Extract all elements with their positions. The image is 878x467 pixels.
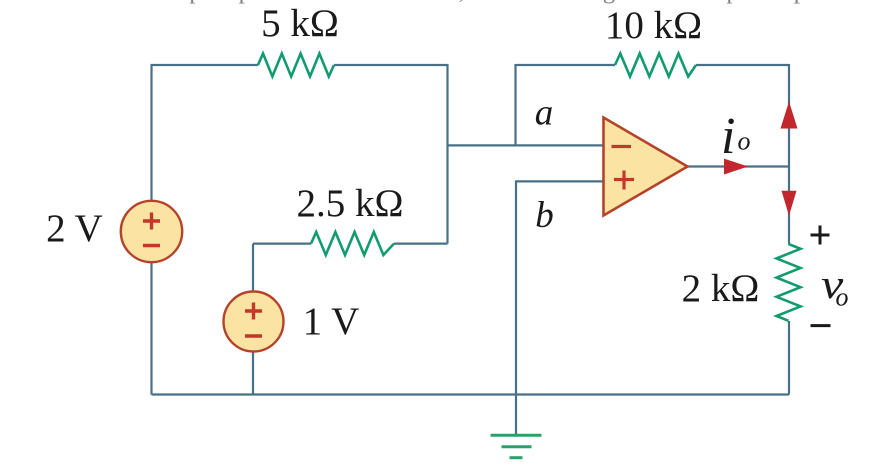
cropped caption text at very top bbox=[140, 0, 852, 4]
resistor R=10k zigzag bbox=[615, 54, 696, 77]
svg-text:the op amp circuit shown below: the op amp circuit shown below, calculat… bbox=[140, 0, 852, 4]
svg-text:2.5 kΩ: 2.5 kΩ bbox=[297, 182, 404, 225]
wire bottom horizontal bbox=[152, 393, 790, 395]
plus sign for v_o bbox=[811, 226, 830, 245]
svg-text:5 kΩ: 5 kΩ bbox=[261, 2, 339, 45]
wire right vertical upper bbox=[788, 64, 790, 244]
svg-text:10 kΩ: 10 kΩ bbox=[605, 4, 702, 47]
svg-text:b: b bbox=[535, 195, 554, 236]
wire 1V source vertical bbox=[252, 244, 254, 395]
minus sign for v_o bbox=[811, 324, 831, 327]
wire node a vertical bbox=[514, 64, 516, 145]
wire right vertical lower bbox=[788, 321, 790, 395]
wire 2.5k left segment bbox=[253, 243, 311, 245]
arrow down on right branch bbox=[782, 191, 797, 216]
wire node b vertical down to ground bbox=[515, 180, 517, 435]
wire noninverting input bbox=[516, 180, 604, 182]
svg-text:a: a bbox=[535, 93, 554, 134]
resistor R=2.5k zigzag bbox=[311, 232, 394, 255]
svg-text:o: o bbox=[738, 127, 751, 156]
ground bbox=[491, 435, 542, 457]
arrow up on right branch bbox=[781, 102, 798, 129]
wire right side of input loop bbox=[446, 64, 448, 244]
wire 2.5k right segment bbox=[394, 243, 448, 245]
wire top-left horizontal (left of 5k) bbox=[151, 64, 259, 66]
wire middle horizontal to inverting input bbox=[447, 144, 604, 146]
voltage source V2 1V bbox=[224, 292, 284, 352]
wire top-left horizontal (right of 5k) bbox=[334, 64, 448, 66]
arrow output current bbox=[724, 159, 748, 175]
wire left vertical bbox=[150, 65, 152, 395]
svg-text:o: o bbox=[836, 283, 849, 312]
wire bbox=[151, 64, 790, 435]
wire top-right horizontal (left of 10k) bbox=[516, 64, 616, 66]
wire top-right horizontal (right of 10k) bbox=[696, 64, 789, 66]
op-amp U1 bbox=[604, 118, 688, 216]
svg-text:2 kΩ: 2 kΩ bbox=[682, 267, 760, 310]
svg-text:i: i bbox=[721, 108, 735, 165]
resistor R=5k zigzag bbox=[258, 54, 334, 77]
voltage source V1 2V bbox=[121, 201, 182, 262]
svg-text:1 V: 1 V bbox=[303, 300, 360, 343]
svg-text:2 V: 2 V bbox=[46, 207, 103, 250]
resistor R=2k vertical zigzag bbox=[777, 244, 801, 321]
wire op-amp output bbox=[688, 165, 790, 167]
